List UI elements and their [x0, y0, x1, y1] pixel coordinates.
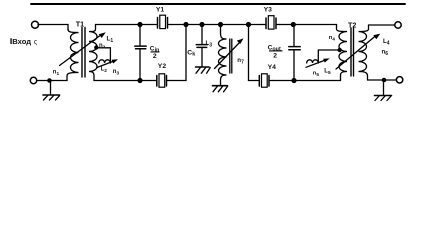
transformer T2 core [351, 28, 354, 76]
wire (link between arms) [185, 27, 187, 81]
wire (rail Y1 to T2 corner) [171, 24, 337, 26]
node (Cin branch top) [137, 22, 142, 27]
crystal Y4 [256, 74, 272, 87]
wire [37, 76, 67, 81]
transformer T1 primary winding (n1, variable) [67, 29, 79, 76]
ground (output) [375, 82, 392, 101]
L3 core [230, 39, 232, 73]
node [183, 22, 188, 27]
transformer T1 secondary winding (L1) [89, 25, 97, 81]
L2 variable arrow [97, 59, 118, 67]
svg-text:L1: L1 [107, 36, 114, 45]
svg-text:n6: n6 [382, 48, 389, 57]
svg-text:T1: T1 [76, 19, 84, 28]
svg-text:n3: n3 [113, 69, 120, 77]
output terminal top [395, 22, 401, 28]
transformer T2 left winding (n4/n5) [337, 25, 348, 76]
node [246, 22, 251, 27]
svg-text:n7: n7 [237, 57, 244, 66]
label Вход [10, 38, 11, 44]
wire (link between arms 2) [248, 27, 250, 81]
svg-text:2: 2 [153, 53, 157, 60]
wire [272, 75, 340, 81]
crystal Y1 [154, 15, 171, 28]
capacitor Cin/2 [135, 27, 146, 80]
crystal Y2 [154, 74, 170, 87]
wire (output bottom) [368, 79, 397, 81]
svg-text:n1: n1 [53, 69, 60, 77]
node (Cout branch top) [291, 22, 296, 27]
node [199, 22, 204, 27]
node (input ground junction) [47, 78, 52, 83]
svg-text:Ck: Ck [187, 50, 195, 58]
L5 variable arrow [306, 58, 330, 67]
node (Cout branch bottom) [291, 78, 296, 83]
wire (output top) [369, 24, 395, 26]
node (secondary tap n2) [94, 45, 98, 49]
svg-text:Y4: Y4 [268, 64, 277, 71]
wire (tap to L5) [318, 50, 338, 62]
svg-text:2: 2 [273, 52, 277, 59]
svg-text:ς: ς [34, 39, 38, 46]
input terminal top [32, 21, 39, 28]
ground (L3) [213, 86, 228, 92]
svg-text:n2: n2 [99, 43, 106, 51]
svg-text:T2: T2 [348, 21, 356, 30]
T1 variable arrow [60, 32, 106, 65]
L3 variable arrow [215, 38, 244, 68]
input terminal bottom [30, 77, 36, 83]
wire (tap to L2) [98, 48, 110, 62]
wire [38, 25, 68, 31]
T2 variable arrow [336, 34, 380, 69]
wire (bottom right rail) [249, 80, 257, 82]
inductor L5 (n5, variable) [307, 60, 319, 63]
ground (Ck) [196, 67, 211, 73]
node (output ground junction) [382, 78, 387, 83]
svg-text:Y2: Y2 [158, 63, 167, 70]
svg-text:n5: n5 [313, 70, 320, 77]
svg-text:L4: L4 [383, 38, 390, 47]
svg-text:L5: L5 [324, 69, 331, 77]
label Cin/2 [150, 45, 160, 59]
capacitor Ck [196, 27, 207, 67]
wire (top rail from T1 secondary) [96, 24, 154, 26]
label Cout/2 [268, 44, 283, 59]
node (T2 tap n4) [338, 48, 342, 52]
svg-text:Y3: Y3 [264, 6, 273, 13]
wire (bottom left rail) [94, 80, 153, 82]
wire [170, 80, 186, 82]
svg-text:n4: n4 [329, 35, 336, 42]
transformer T2 right winding (L4) [359, 25, 369, 80]
svg-text:L2: L2 [101, 66, 108, 74]
svg-text:Y1: Y1 [156, 6, 165, 13]
top rule line [31, 3, 405, 5]
crystal Y3 [263, 16, 280, 29]
svg-text:Вход: Вход [12, 37, 31, 46]
output terminal bottom [396, 77, 402, 83]
ground [43, 83, 60, 101]
inductor L3 (n7, variable) [219, 27, 227, 85]
inductor L2 (n3, variable) [99, 60, 111, 63]
transformer T1 core [82, 28, 85, 78]
node [218, 22, 223, 27]
node (Cin branch bottom) [137, 78, 142, 83]
capacitor Cout/2 [289, 27, 300, 78]
